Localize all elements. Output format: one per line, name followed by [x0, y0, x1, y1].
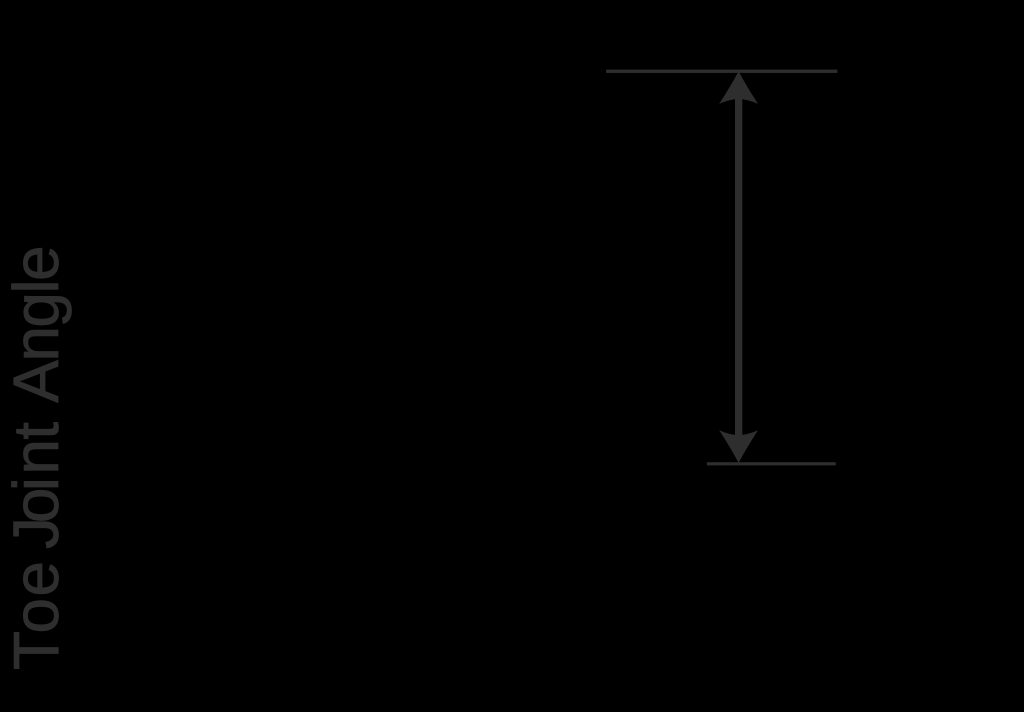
- bottom arrowhead: [719, 430, 758, 463]
- bottom reference line: [707, 462, 836, 465]
- top arrowhead: [719, 71, 758, 104]
- top reference line: [606, 70, 837, 73]
- axis label "Toe Joint Angle" (rotated): [4, 247, 68, 670]
- arrow shaft: [735, 96, 742, 438]
